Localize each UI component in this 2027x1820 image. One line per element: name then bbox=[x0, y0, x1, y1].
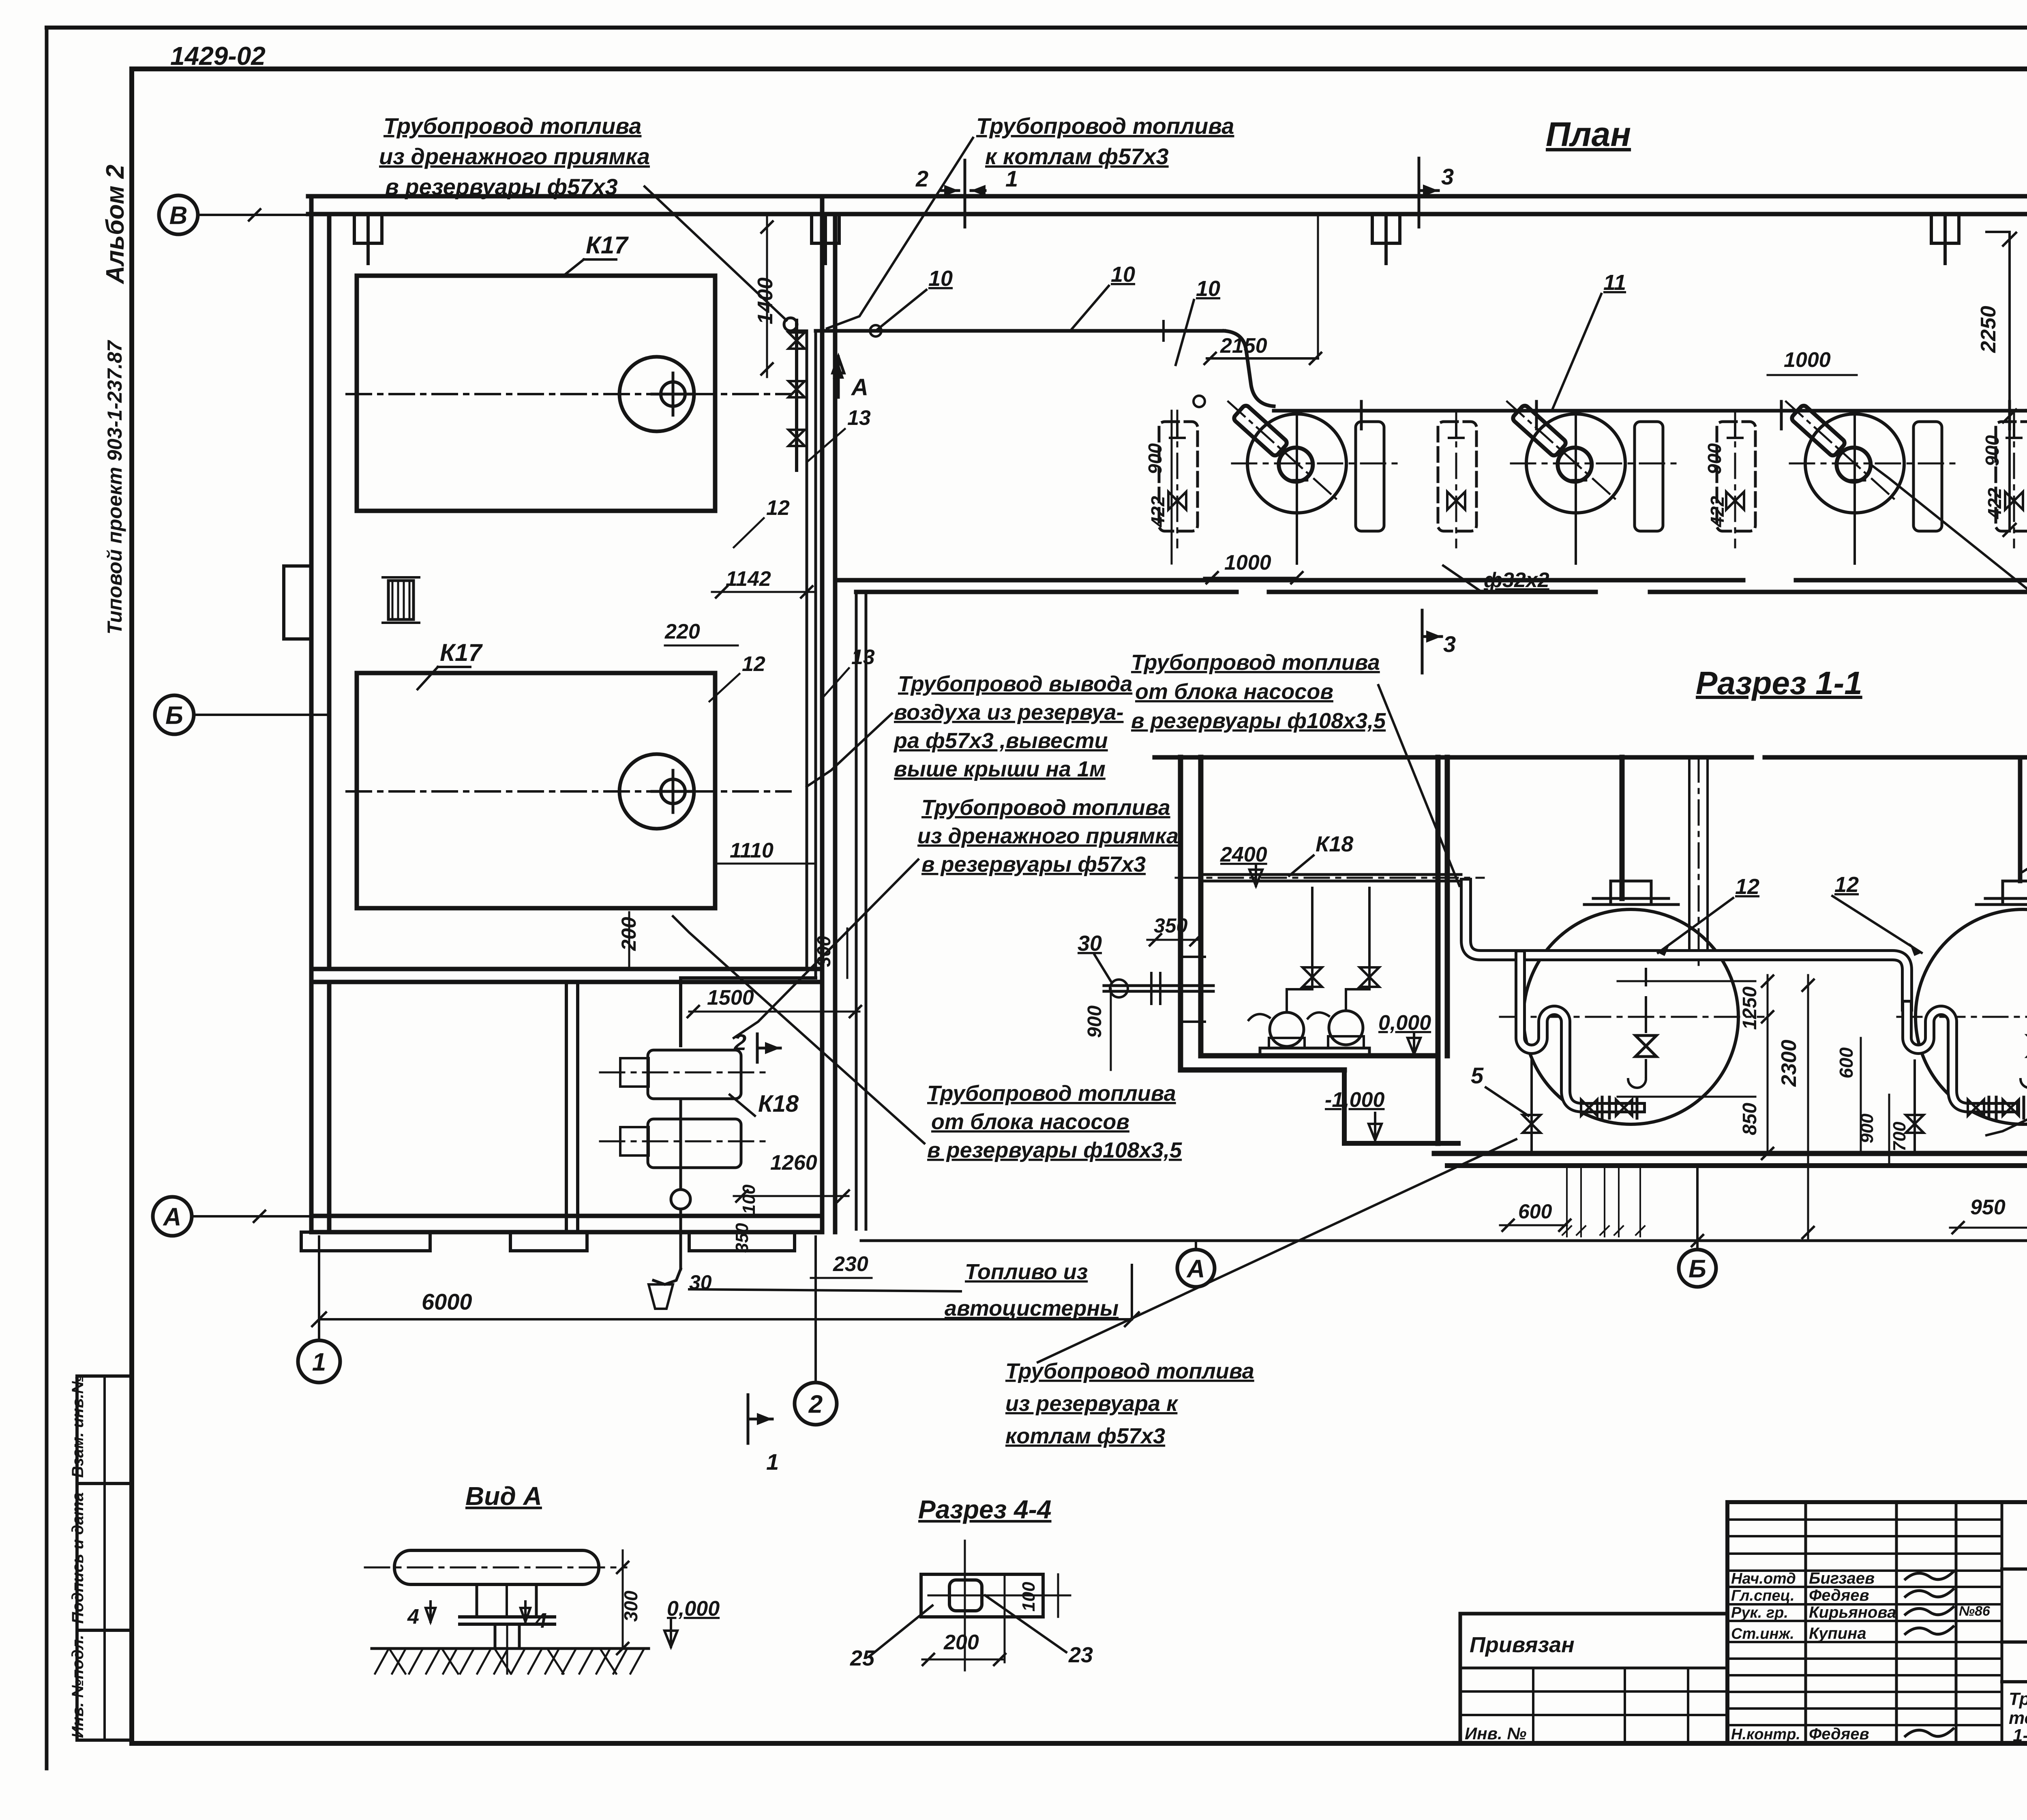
svg-text:котлам ф57х3: котлам ф57х3 bbox=[1005, 1424, 1165, 1448]
svg-text:1250: 1250 bbox=[1739, 986, 1761, 1030]
svg-text:0,000: 0,000 bbox=[1378, 1011, 1431, 1035]
svg-text:из дренажного приямка: из дренажного приямка bbox=[917, 824, 1178, 848]
svg-text:0,000: 0,000 bbox=[667, 1597, 720, 1621]
svg-text:11: 11 bbox=[1603, 270, 1626, 295]
svg-text:Н.контр.: Н.контр. bbox=[1731, 1726, 1800, 1743]
svg-text:300: 300 bbox=[620, 1591, 641, 1622]
svg-text:Б: Б bbox=[165, 701, 183, 729]
svg-text:6000: 6000 bbox=[422, 1289, 472, 1314]
svg-text:К17: К17 bbox=[586, 232, 629, 259]
svg-text:350: 350 bbox=[1154, 914, 1188, 937]
svg-text:12: 12 bbox=[766, 496, 790, 520]
svg-text:900: 900 bbox=[1857, 1113, 1877, 1143]
svg-text:Трубопровод топлива: Трубопровод топлива bbox=[921, 795, 1170, 820]
svg-text:2150: 2150 bbox=[1220, 334, 1267, 358]
svg-text:1142: 1142 bbox=[726, 567, 771, 591]
svg-text:Топливо из: Топливо из bbox=[965, 1260, 1088, 1284]
svg-text:13: 13 bbox=[847, 406, 871, 430]
svg-text:выше крыши на 1м: выше крыши на 1м bbox=[894, 757, 1106, 781]
svg-text:Инв. №подл.: Инв. №подл. bbox=[69, 1635, 87, 1738]
svg-text:2400: 2400 bbox=[1220, 843, 1267, 866]
svg-text:К17: К17 bbox=[440, 639, 483, 666]
svg-text:в резервуары ф57х3: в резервуары ф57х3 bbox=[921, 852, 1146, 877]
svg-text:ф32х2: ф32х2 bbox=[1484, 568, 1549, 592]
svg-text:422: 422 bbox=[1984, 488, 2005, 519]
svg-text:700: 700 bbox=[1890, 1121, 1909, 1151]
svg-text:1500: 1500 bbox=[707, 986, 754, 1010]
svg-text:422: 422 bbox=[1147, 496, 1168, 527]
svg-text:Инв. №: Инв. № bbox=[1465, 1724, 1526, 1743]
svg-text:План: План bbox=[1546, 115, 1631, 153]
svg-text:Трубопровод топлива: Трубопровод топлива bbox=[927, 1081, 1176, 1106]
svg-text:из дренажного приямка: из дренажного приямка bbox=[379, 144, 650, 169]
svg-text:12: 12 bbox=[1834, 872, 1859, 897]
svg-text:Привязан: Привязан bbox=[1470, 1633, 1575, 1657]
svg-text:Подпись и дата: Подпись и дата bbox=[69, 1492, 87, 1624]
svg-text:Альбом 2: Альбом 2 bbox=[101, 165, 129, 285]
svg-text:Разрез 4-4: Разрез 4-4 bbox=[918, 1495, 1052, 1524]
svg-text:А: А bbox=[1186, 1255, 1205, 1283]
svg-text:1000: 1000 bbox=[1224, 551, 1271, 575]
svg-text:ра ф57х3 ,вывести: ра ф57х3 ,вывести bbox=[893, 729, 1108, 753]
svg-text:Рук. гр.: Рук. гр. bbox=[1731, 1604, 1788, 1621]
svg-text:950: 950 bbox=[1970, 1196, 2006, 1219]
svg-text:от блока насосов: от блока насосов bbox=[1135, 680, 1333, 704]
svg-text:12: 12 bbox=[1735, 875, 1759, 899]
svg-text:25: 25 bbox=[850, 1646, 875, 1670]
svg-text:автоцистерны: автоцистерны bbox=[945, 1296, 1118, 1321]
svg-text:10: 10 bbox=[928, 266, 953, 291]
svg-text:из резервуара к: из резервуара к bbox=[1005, 1391, 1178, 1416]
svg-text:1000: 1000 bbox=[1784, 348, 1831, 372]
svg-text:А: А bbox=[851, 374, 868, 401]
svg-text:Трубопроводы жидкого: Трубопроводы жидкого bbox=[2009, 1689, 2027, 1709]
svg-text:Взам. инв.№: Взам. инв.№ bbox=[69, 1375, 87, 1478]
svg-text:Бигзаев: Бигзаев bbox=[1809, 1569, 1875, 1587]
svg-text:Ст.инж.: Ст.инж. bbox=[1731, 1625, 1794, 1642]
svg-text:топлива. План. Разрезы: топлива. План. Разрезы bbox=[2009, 1708, 2027, 1728]
svg-text:3: 3 bbox=[1441, 164, 1454, 189]
svg-text:1: 1 bbox=[312, 1348, 326, 1376]
svg-text:10: 10 bbox=[1111, 262, 1135, 287]
svg-text:900: 900 bbox=[1144, 443, 1166, 474]
svg-text:10: 10 bbox=[1196, 277, 1220, 301]
svg-text:23: 23 bbox=[1068, 1643, 1093, 1667]
svg-text:в резервуары ф57х3: в резервуары ф57х3 bbox=[385, 174, 618, 199]
svg-text:от блока насосов: от блока насосов bbox=[931, 1110, 1129, 1134]
svg-text:1-1 ; 4-4. Вид А.: 1-1 ; 4-4. Вид А. bbox=[2013, 1726, 2027, 1745]
svg-text:-1,000: -1,000 bbox=[1325, 1088, 1385, 1112]
svg-text:В: В bbox=[169, 202, 188, 229]
svg-text:2: 2 bbox=[915, 166, 928, 191]
svg-text:600: 600 bbox=[1518, 1200, 1552, 1223]
svg-text:Вид А: Вид А bbox=[465, 1481, 542, 1511]
svg-text:350: 350 bbox=[732, 1223, 752, 1253]
svg-text:900: 900 bbox=[1982, 435, 2003, 466]
svg-text:Разрез 1-1: Разрез 1-1 bbox=[1696, 665, 1862, 701]
svg-text:воздуха из резервуа-: воздуха из резервуа- bbox=[894, 700, 1124, 725]
svg-text:Федяев: Федяев bbox=[1809, 1586, 1869, 1604]
svg-text:2: 2 bbox=[808, 1390, 823, 1418]
svg-text:в резервуары ф108х3,5: в резервуары ф108х3,5 bbox=[927, 1138, 1182, 1162]
svg-text:4: 4 bbox=[535, 1609, 547, 1633]
svg-text:к котлам ф57х3: к котлам ф57х3 bbox=[985, 144, 1169, 169]
svg-text:Трубопровод топлива: Трубопровод топлива bbox=[976, 113, 1234, 139]
svg-text:в резервуары ф108х3,5: в резервуары ф108х3,5 bbox=[1131, 709, 1386, 733]
svg-text:900: 900 bbox=[1084, 1005, 1106, 1038]
svg-text:850: 850 bbox=[1739, 1103, 1761, 1135]
svg-text:Трубопровод топлива: Трубопровод топлива bbox=[1005, 1359, 1254, 1383]
svg-text:А: А bbox=[163, 1203, 182, 1231]
svg-text:Трубопровод топлива: Трубопровод топлива bbox=[1131, 650, 1380, 675]
svg-text:100: 100 bbox=[1019, 1582, 1039, 1612]
svg-text:12: 12 bbox=[742, 652, 765, 676]
svg-text:Гл.спец.: Гл.спец. bbox=[1731, 1587, 1795, 1604]
svg-text:1260: 1260 bbox=[770, 1151, 817, 1175]
svg-text:230: 230 bbox=[833, 1252, 868, 1276]
svg-text:2250: 2250 bbox=[1977, 306, 2000, 353]
svg-text:3: 3 bbox=[1443, 631, 1456, 657]
svg-text:Типовой проект 903-1-237.87: Типовой проект 903-1-237.87 bbox=[103, 340, 126, 635]
svg-text:600: 600 bbox=[1836, 1047, 1857, 1078]
svg-text:№86: №86 bbox=[1959, 1603, 1991, 1619]
svg-text:Трубопровод топлива: Трубопровод топлива bbox=[384, 113, 641, 139]
svg-text:Федяев: Федяев bbox=[1809, 1725, 1869, 1743]
svg-text:2300: 2300 bbox=[1777, 1040, 1801, 1087]
svg-text:Кирьянова: Кирьянова bbox=[1809, 1603, 1896, 1621]
svg-text:1429-02: 1429-02 bbox=[170, 41, 266, 71]
svg-text:422: 422 bbox=[1707, 496, 1728, 527]
svg-text:1: 1 bbox=[1005, 166, 1018, 191]
svg-text:К18: К18 bbox=[758, 1091, 799, 1117]
svg-text:5: 5 bbox=[1471, 1063, 1484, 1088]
svg-text:200: 200 bbox=[943, 1631, 979, 1654]
svg-text:900: 900 bbox=[1704, 443, 1725, 474]
svg-text:Купина: Купина bbox=[1809, 1625, 1866, 1642]
svg-text:К18: К18 bbox=[1316, 832, 1353, 856]
svg-text:220: 220 bbox=[664, 620, 700, 643]
svg-text:4: 4 bbox=[407, 1605, 419, 1629]
svg-text:100: 100 bbox=[739, 1184, 759, 1214]
svg-text:Б: Б bbox=[1688, 1255, 1706, 1283]
svg-text:Трубопровод вывода: Трубопровод вывода bbox=[898, 672, 1132, 696]
svg-text:1110: 1110 bbox=[730, 839, 774, 862]
svg-text:1: 1 bbox=[766, 1449, 779, 1475]
svg-text:30: 30 bbox=[1078, 931, 1102, 956]
svg-text:Нач.отд: Нач.отд bbox=[1731, 1570, 1796, 1587]
